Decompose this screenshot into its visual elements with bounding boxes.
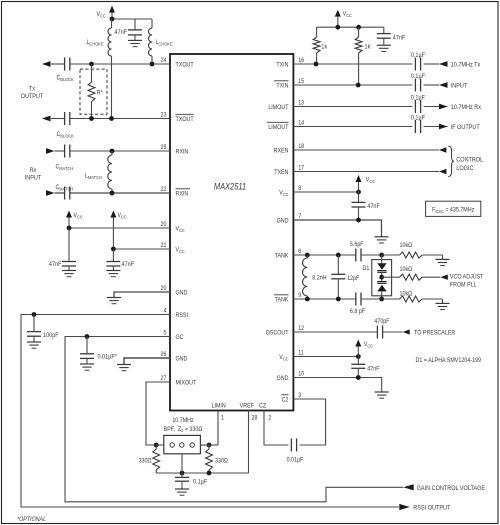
svg-text:12pF: 12pF: [347, 275, 360, 281]
svg-text:0.1µF: 0.1µF: [193, 479, 207, 485]
wire GND pin26: [124, 358, 170, 364]
pin 27 MIXOUT label: [161, 376, 197, 387]
svg-text:20: 20: [161, 222, 168, 228]
svg-text:14: 14: [298, 120, 305, 126]
svg-text:8: 8: [298, 186, 301, 192]
node BPF left: [154, 443, 159, 448]
svg-text:RXIN: RXIN: [176, 149, 189, 155]
resistor 330ohm right: [206, 445, 229, 473]
svg-text:VCO ADJUST: VCO ADJUST: [450, 274, 484, 280]
ground pin26: [117, 365, 131, 371]
power VCC arrow pin20: [66, 211, 83, 229]
inductor LCHOKE right: [149, 19, 173, 64]
pin 6 TANK label right: [275, 249, 302, 260]
pin 11 VCC label right: [279, 350, 303, 361]
svg-text:GND: GND: [176, 290, 188, 296]
svg-text:CMATCH: CMATCH: [56, 164, 74, 171]
pin 15 TXIN label right: [274, 79, 304, 90]
ground under 0.1uF: [175, 489, 189, 495]
pin 7 GND label right: [277, 214, 302, 225]
capacitor 12pF: [331, 255, 359, 299]
svg-text:18: 18: [298, 144, 304, 150]
resistor 330ohm left: [139, 445, 160, 473]
svg-text:1: 1: [221, 415, 224, 421]
svg-text:LOGIC: LOGIC: [456, 166, 474, 172]
resistor 1k left: [313, 37, 328, 64]
arrow Tx output top: [42, 61, 51, 67]
ground under 47nF top-left: [128, 40, 142, 46]
arrow TO PRESCALER: [403, 329, 456, 336]
svg-text:RSSI OUTPUT: RSSI OUTPUT: [413, 505, 450, 511]
capacitor 47nF pin11: [351, 357, 380, 378]
svg-text:1k: 1k: [365, 44, 372, 50]
wire MIXOUT pin27: [146, 382, 170, 445]
svg-text:FOSC = 435.7MHz: FOSC = 435.7MHz: [432, 207, 474, 214]
svg-text:VCC: VCC: [279, 355, 288, 362]
svg-text:1k: 1k: [321, 44, 328, 50]
svg-text:4: 4: [164, 308, 168, 314]
svg-text:Rx: Rx: [30, 168, 37, 174]
label Tx OUTPUT: [21, 86, 44, 100]
svg-text:13: 13: [298, 100, 304, 106]
svg-text:LIMOUT: LIMOUT: [268, 125, 289, 131]
wire VCC pin21: [111, 247, 170, 252]
power VCC arrow pin11: [355, 340, 373, 357]
svg-text:0.1µF: 0.1µF: [411, 115, 425, 121]
svg-text:17: 17: [298, 165, 304, 171]
svg-text:12: 12: [298, 326, 304, 332]
ground 10k top: [436, 255, 450, 266]
wire RSSI pin4: [21, 312, 399, 507]
capacitor CBLOCK bottom: [57, 112, 74, 138]
svg-text:8.2nH: 8.2nH: [312, 275, 326, 281]
svg-text:47nF: 47nF: [49, 262, 62, 268]
svg-text:3: 3: [298, 393, 301, 399]
arrow Rx input top: [46, 148, 55, 154]
svg-text:330Ω: 330Ω: [139, 458, 152, 464]
wire TXOUT pin24: [51, 62, 170, 67]
svg-text:16: 16: [298, 58, 304, 64]
svg-text:CONTROL: CONTROL: [456, 157, 484, 163]
svg-text:TXIN: TXIN: [276, 62, 288, 68]
svg-text:10.7MHz Rx: 10.7MHz Rx: [451, 105, 481, 111]
varactor D1: [363, 255, 392, 299]
wire TXIN-bar pin15: [293, 83, 412, 88]
ground 10k bottom: [436, 299, 450, 310]
svg-text:TXOUT: TXOUT: [176, 117, 194, 123]
svg-text:OSCOUT: OSCOUT: [266, 330, 289, 336]
svg-text:VCC: VCC: [343, 11, 352, 18]
svg-text:21: 21: [161, 243, 167, 249]
svg-text:0.01µF*: 0.01µF*: [98, 354, 118, 360]
capacitor 0.1uF IF OUTPUT: [411, 115, 425, 133]
wire VCC pin11: [293, 354, 360, 359]
svg-text:TXOUT: TXOUT: [176, 62, 194, 68]
capacitor 47nF top-right: [377, 27, 406, 45]
wire RXEN pin18: [293, 149, 439, 151]
svg-text:10: 10: [298, 371, 305, 377]
svg-text:TXIN: TXIN: [276, 83, 288, 89]
power VCC arrow pin8: [356, 175, 375, 192]
svg-text:TO PRESCALER: TO PRESCALER: [414, 330, 455, 336]
wire BPF left stub: [156, 444, 164, 446]
resistor 10k mid: [400, 267, 441, 281]
svg-text:0.1µF: 0.1µF: [411, 95, 425, 101]
svg-text:VCC: VCC: [176, 226, 185, 233]
power VCC arrow top-left: [97, 6, 116, 19]
svg-text:25: 25: [161, 145, 167, 151]
pin 16 TXIN label right: [276, 58, 304, 69]
pin 12 OSCOUT label right: [266, 326, 304, 337]
inductor LCHOKE left: [87, 19, 112, 119]
svg-text:CZ: CZ: [259, 403, 267, 409]
pin 17 TXEN label right: [274, 165, 304, 176]
arrow RSSI OUTPUT: [399, 504, 450, 512]
wire 6.8pF to D1 bottom: [361, 297, 384, 302]
wire TXIN pin16: [293, 62, 412, 67]
svg-text:VREF: VREF: [240, 403, 255, 409]
svg-text:GND: GND: [277, 376, 289, 382]
resistor 10k top: [382, 242, 443, 258]
ground pin GND left: [107, 298, 121, 304]
pin 14 LIMOUT label right: [267, 120, 305, 131]
svg-text:10kΩ: 10kΩ: [400, 267, 413, 273]
wire to 10.7MHz Rx: [424, 106, 448, 108]
wire to 10.7MHz Tx: [424, 63, 439, 65]
capacitor 0.01uF CZ: [287, 439, 304, 464]
svg-text:0.1µF: 0.1µF: [411, 52, 425, 58]
arrow GAIN CONTROL VOLTAGE: [403, 484, 485, 492]
label optional note: [17, 517, 46, 523]
arrow 10.7MHz Rx: [439, 104, 481, 112]
arrow IF OUTPUT: [439, 124, 480, 132]
svg-text:TANK: TANK: [275, 297, 289, 303]
wire VCC pin20: [67, 226, 170, 231]
svg-text:VCC: VCC: [279, 190, 288, 197]
svg-text:RSSI: RSSI: [176, 313, 189, 319]
pin 24 TXOUT label: [161, 58, 194, 69]
wire LIMOUT pin13: [293, 106, 412, 108]
box Fosc: [426, 201, 481, 216]
wire GND pin left: [114, 292, 170, 297]
svg-text:47nF: 47nF: [122, 262, 135, 268]
svg-text:20: 20: [161, 286, 168, 292]
ground under 47nF top-right: [377, 45, 391, 51]
svg-text:BPF, Z0 = 330Ω: BPF, Z0 = 330Ω: [164, 426, 203, 433]
wire D1 tap to 10k mid: [382, 276, 400, 278]
capacitor 470pF: [374, 318, 390, 338]
ground under 100pF: [27, 342, 41, 348]
svg-text:47nF: 47nF: [115, 29, 128, 35]
capacitor 0.1uF BPF: [175, 473, 207, 489]
svg-text:47nF: 47nF: [367, 366, 380, 372]
pin 2 CZ label: [259, 403, 271, 421]
pin 28 VREF label: [240, 403, 258, 421]
svg-text:IF OUTPUT: IF OUTPUT: [451, 125, 480, 131]
capacitor 47nF right pin21: [106, 249, 134, 270]
svg-text:28: 28: [251, 415, 257, 421]
wire RXIN pin25: [55, 149, 171, 154]
svg-text:LCHOKE: LCHOKE: [87, 40, 104, 47]
svg-text:C2: C2: [282, 397, 289, 403]
pin 20 VCC label: [161, 222, 185, 233]
svg-text:VCC: VCC: [74, 213, 83, 220]
svg-text:11: 11: [298, 350, 304, 356]
capacitor CMATCH top: [56, 145, 74, 171]
wire C2-bar pin3 loop: [293, 399, 325, 445]
capacitor 47nF left pin20: [49, 228, 76, 270]
svg-text:24: 24: [161, 58, 168, 64]
capacitor 6.8pF: [350, 293, 366, 315]
svg-text:0.1µF: 0.1µF: [411, 73, 425, 79]
filter BPF 10.7MHz box: [164, 418, 203, 454]
svg-text:LMATCH: LMATCH: [85, 173, 102, 180]
svg-text:VCC: VCC: [176, 247, 185, 254]
ground under 47nF left: [62, 271, 76, 277]
arrow Tx output bottom: [42, 116, 51, 122]
wire LIMOUT-bar pin14: [293, 126, 412, 128]
svg-text:CMATCH: CMATCH: [56, 185, 74, 192]
ground pin10: [375, 392, 389, 398]
svg-text:*OPTIONAL: *OPTIONAL: [17, 517, 46, 523]
pin 5 GC label: [164, 330, 184, 341]
capacitor 47nF top-left: [115, 19, 143, 40]
ground under 0.01uF*: [80, 364, 94, 370]
svg-text:10.7MHz Tx: 10.7MHz Tx: [451, 62, 481, 68]
capacitor CMATCH bottom: [56, 185, 74, 200]
wire to INPUT: [424, 84, 439, 86]
svg-text:CBLOCK: CBLOCK: [57, 75, 74, 82]
brace control logic: [448, 146, 484, 177]
svg-text:5: 5: [164, 330, 167, 336]
svg-text:10kΩ: 10kΩ: [400, 291, 413, 297]
svg-text:0.01µF: 0.01µF: [287, 457, 304, 463]
svg-text:D1: D1: [363, 266, 370, 272]
pin 3 C2 label right: [281, 393, 301, 404]
resistor 10k bottom: [382, 291, 443, 302]
svg-text:D1 = ALPHA SMV1204-199: D1 = ALPHA SMV1204-199: [416, 357, 481, 363]
svg-text:INPUT: INPUT: [451, 83, 468, 89]
arrow TXEN: [439, 169, 446, 174]
svg-text:2: 2: [268, 415, 271, 421]
svg-text:6.8 pF: 6.8 pF: [350, 308, 366, 314]
svg-text:TXEN: TXEN: [274, 170, 288, 176]
pin 21 VCC label: [161, 243, 185, 254]
svg-text:CBLOCK: CBLOCK: [57, 132, 74, 139]
svg-text:R*: R*: [97, 90, 104, 96]
inductor LMATCH: [85, 151, 112, 193]
pin 26 GND label: [161, 352, 188, 363]
svg-text:9: 9: [298, 293, 301, 299]
capacitor 0.01uF*: [80, 337, 118, 364]
wire GND pin10: [293, 375, 381, 392]
capacitor 5.6pF: [350, 241, 364, 261]
svg-text:RXEN: RXEN: [274, 148, 289, 154]
resistor 1k right: [355, 27, 371, 85]
svg-text:RXIN: RXIN: [176, 191, 189, 197]
power VCC arrow top-right: [335, 10, 352, 28]
svg-text:22: 22: [161, 187, 167, 193]
svg-text:47nF: 47nF: [393, 35, 406, 41]
svg-text:OUTPUT: OUTPUT: [21, 94, 44, 100]
capacitor 0.1uF LIMOUT: [411, 95, 425, 113]
pin 20 GND label: [161, 286, 188, 297]
wire 5.6pF to D1 top: [361, 253, 384, 258]
ground under 47nF right: [106, 271, 120, 277]
pin 9 TANK label right: [274, 293, 301, 304]
svg-text:GND: GND: [277, 218, 289, 224]
svg-text:FROM PLL: FROM PLL: [450, 282, 477, 288]
pin 10 GND label right: [277, 371, 305, 382]
pin 22 RXIN label: [161, 187, 190, 198]
svg-text:15: 15: [298, 79, 304, 85]
capacitor CBLOCK top: [57, 58, 74, 82]
svg-text:GND: GND: [176, 356, 188, 362]
pin 8 VCC label right: [279, 186, 301, 197]
wire vcc rail top-left: [110, 17, 152, 22]
pin 4 RSSI label: [164, 308, 189, 319]
resistor R* optional with dashed box: [80, 64, 107, 119]
wire to prescaler: [383, 331, 403, 333]
svg-text:26: 26: [161, 352, 167, 358]
IC U1 MAX2511: [170, 54, 293, 411]
pin 23 TXOUT label: [161, 112, 194, 123]
pin 18 RXEN label right: [274, 144, 304, 155]
wire bottom rail to VREF: [156, 411, 248, 476]
ground pin7: [375, 237, 389, 243]
wire CZ pin2 to cap: [264, 411, 288, 446]
capacitor 100pF: [27, 315, 59, 342]
arrow VCO ADJUST: [440, 274, 483, 288]
wire RXIN-bar pin22: [55, 191, 171, 196]
svg-text:47nF: 47nF: [367, 204, 380, 210]
svg-text:INPUT: INPUT: [25, 175, 42, 181]
svg-text:VCC: VCC: [97, 12, 106, 19]
wire TXEN pin17: [293, 171, 439, 173]
svg-text:10.7MHz: 10.7MHz: [172, 418, 193, 424]
svg-text:MAX2511: MAX2511: [214, 182, 246, 192]
pin 25 RXIN label: [161, 145, 189, 156]
wire GC pin5 gain control: [65, 334, 403, 502]
arrow 10.7MHz Tx: [439, 61, 480, 69]
svg-text:27: 27: [161, 376, 167, 382]
svg-text:VCC: VCC: [118, 213, 127, 220]
svg-text:Tx: Tx: [29, 86, 35, 92]
wire vcc rail top-right: [317, 25, 384, 37]
svg-text:100pF: 100pF: [43, 333, 59, 339]
wire BPF right to LIMIN: [200, 411, 218, 446]
svg-text:LIMIN: LIMIN: [211, 403, 225, 409]
arrow INPUT: [439, 82, 468, 90]
svg-text:7: 7: [298, 214, 301, 220]
wire BPF box bottom stem: [181, 454, 183, 473]
wire OSCOUT pin12: [293, 331, 377, 333]
svg-text:23: 23: [161, 112, 167, 118]
svg-text:TANK: TANK: [275, 253, 289, 259]
capacitor 0.1uF TXIN: [411, 52, 425, 70]
label Rx INPUT: [25, 168, 42, 182]
arrow Rx input bottom: [46, 190, 55, 196]
label D1 part number: [416, 357, 481, 363]
svg-text:VCC: VCC: [364, 342, 373, 349]
arrow RXEN: [439, 147, 446, 152]
svg-text:470pF: 470pF: [374, 318, 390, 324]
svg-text:6: 6: [298, 249, 301, 255]
svg-text:GAIN CONTROL VOLTAGE: GAIN CONTROL VOLTAGE: [417, 486, 485, 492]
wire TXOUT-bar pin23: [51, 116, 170, 121]
svg-text:330Ω: 330Ω: [215, 458, 228, 464]
svg-text:5.6pF: 5.6pF: [350, 241, 364, 247]
pin 1 LIMIN label: [211, 403, 225, 421]
capacitor 47nF pin8: [352, 192, 381, 220]
power VCC arrow pin21: [110, 211, 126, 250]
pin 13 LIMOUT label right: [268, 100, 304, 111]
svg-text:LCHOKE: LCHOKE: [156, 40, 173, 47]
wire GND pin7: [293, 218, 381, 237]
node BPF right: [207, 443, 212, 448]
inductor 8.2nH: [303, 255, 327, 299]
svg-text:MIXOUT: MIXOUT: [176, 380, 197, 386]
capacitor 0.1uF INPUT: [411, 73, 425, 91]
wire TANK-bar pin9: [293, 297, 355, 302]
svg-text:GC: GC: [176, 335, 184, 341]
svg-text:LIMOUT: LIMOUT: [268, 105, 289, 111]
wire VCC pin8: [293, 190, 361, 195]
svg-text:VCC: VCC: [366, 177, 375, 184]
wire to IF OUTPUT: [424, 126, 448, 128]
svg-text:10kΩ: 10kΩ: [400, 242, 413, 248]
wire TANK pin6: [293, 253, 355, 258]
